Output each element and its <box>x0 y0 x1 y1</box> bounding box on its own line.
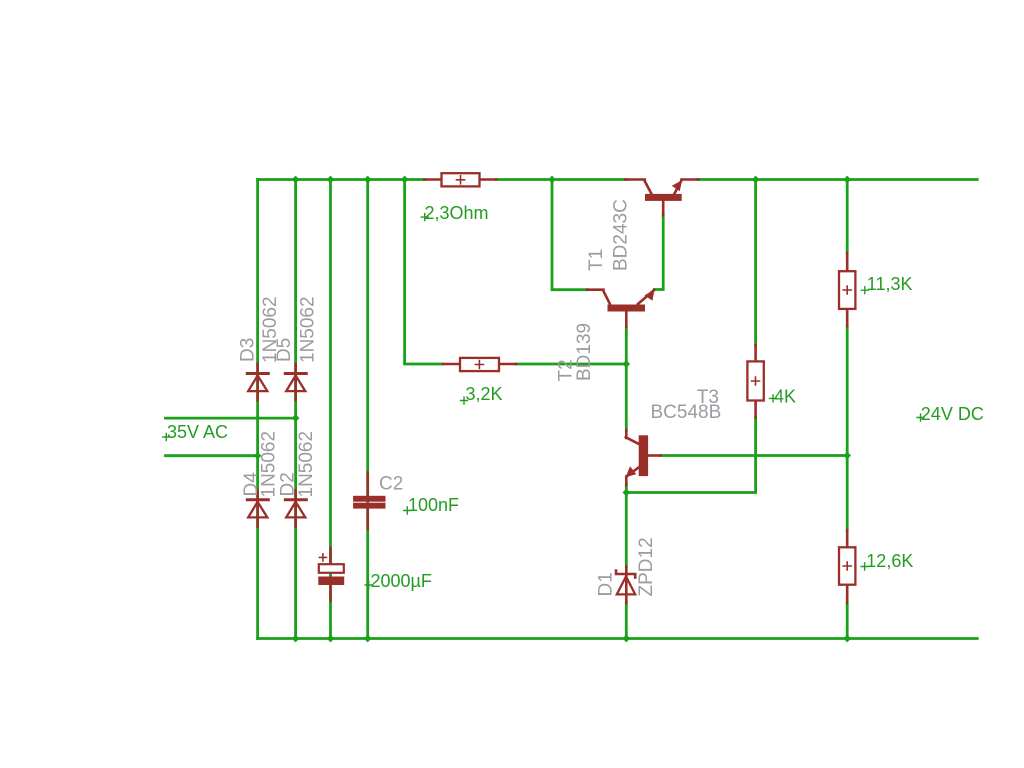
svg-text:4K: 4K <box>774 387 796 407</box>
svg-text:100nF: 100nF <box>408 495 459 515</box>
svg-text:1N5062: 1N5062 <box>296 431 317 498</box>
wire column x=330 (2000uF leg) <box>329 180 332 639</box>
svg-text:ZPD12: ZPD12 <box>636 537 657 596</box>
label value 100nF with origin cross <box>404 495 459 515</box>
junction top rail x=330 <box>327 176 335 184</box>
svg-text:12,6K: 12,6K <box>866 551 913 571</box>
junction top rail x=368 <box>364 176 372 184</box>
wire node down to T3 collector <box>625 364 628 431</box>
junction bottom rail x=368 <box>364 635 372 643</box>
wire T3 emitter node to 4K column <box>626 418 755 493</box>
resistor R 2,3Ohm (horizontal, in top rail) <box>424 173 496 186</box>
wire 35V AC upper lead <box>166 417 296 420</box>
wire divider column top rail to 11,3K <box>846 180 849 254</box>
junction top rail x=552 <box>548 176 556 184</box>
svg-text:BC548B: BC548B <box>651 402 722 423</box>
wire T3 base to divider node x=847 <box>661 454 848 457</box>
svg-text:11,3K: 11,3K <box>867 274 913 294</box>
diode D4 (bridge, bottom left column) <box>247 490 268 527</box>
junction AC lower at x=258 <box>254 452 262 460</box>
svg-text:D1: D1 <box>596 572 617 596</box>
svg-text:35V AC: 35V AC <box>167 422 228 442</box>
resistor R 12,6K (vertical, divider lower) <box>839 530 855 603</box>
svg-text:D5: D5 <box>274 338 295 362</box>
svg-text:BD139: BD139 <box>574 323 595 381</box>
wire 3,2K to node at x=626 <box>516 363 626 366</box>
resistor R 4K (vertical) <box>747 345 763 418</box>
label net 24V DC with origin cross <box>917 404 984 424</box>
resistor R 11,3K (vertical, divider upper) <box>839 253 855 326</box>
zener diode D1 ZPD12 <box>616 567 635 604</box>
transistor T1 BD243C (NPN pass transistor) <box>625 180 699 216</box>
junction AC upper at x=296 <box>292 414 300 422</box>
svg-text:1N5062: 1N5062 <box>297 296 318 363</box>
svg-text:D3: D3 <box>237 338 258 362</box>
wire 4K column to top rail <box>754 180 757 346</box>
wire column x=368 (C2 leg) <box>366 180 369 639</box>
capacitor C1 2000uF (polarized) <box>318 548 344 601</box>
wire left column x=258 (D3/D4 leg) <box>256 180 259 639</box>
resistor R 3,2K (horizontal, bias feed) <box>443 358 516 371</box>
capacitor C2 100nF <box>353 473 385 529</box>
wire T2 collector feed from top rail x=552 <box>552 180 588 290</box>
wire zener D1 to bottom rail <box>625 603 628 639</box>
junction bottom rail x=626 <box>622 635 630 643</box>
diode D2 (bridge, bottom right column) <box>285 490 306 527</box>
junction bottom rail x=296 <box>292 635 300 643</box>
svg-text:BD243C: BD243C <box>610 199 631 271</box>
label value 11,3K with origin cross <box>861 274 912 294</box>
svg-text:1N5062: 1N5062 <box>258 431 279 498</box>
label value 12,6K with origin cross <box>861 551 913 571</box>
wire T3 emitter node down to zener D1 <box>625 485 628 568</box>
wire bottom rail (0V) <box>258 637 978 640</box>
wire top rail output segment (24V DC) <box>697 178 977 181</box>
wire column x=296 (D5/D2 leg) <box>294 180 297 639</box>
diode D5 (bridge, top right column) <box>285 364 306 400</box>
junction top rail x=756 <box>752 176 760 184</box>
wire top rail left segment (unregulated +) <box>258 178 425 181</box>
junction top rail x=847 <box>843 176 851 184</box>
wire 11,3K to divider node <box>846 326 849 531</box>
junction divider node x=847 y=455 <box>843 452 851 460</box>
transistor T3 BC548B (NPN error amplifier) <box>626 430 661 485</box>
label value 2,3Ohm with origin cross <box>421 203 488 223</box>
svg-text:C2: C2 <box>379 474 403 495</box>
label value 4K with origin cross <box>770 387 797 407</box>
svg-text:2000µF: 2000µF <box>371 571 432 591</box>
wire bias column x=405 to 3,2K <box>405 180 443 365</box>
wire T2 emitter to T1 base <box>654 215 663 290</box>
svg-text:3,2K: 3,2K <box>466 384 503 404</box>
wire 12,6K to bottom rail <box>846 603 849 639</box>
junction top rail x=405 <box>401 176 409 184</box>
svg-text:T1: T1 <box>586 249 607 271</box>
svg-text:2,3Ohm: 2,3Ohm <box>425 203 489 223</box>
wire T2 base down to node <box>625 327 628 364</box>
label value 3,2K with origin cross <box>461 384 503 404</box>
label value 2000uF with origin cross <box>365 571 432 591</box>
junction bottom rail x=330 <box>327 635 335 643</box>
diode D3 (bridge, top left column) <box>247 364 268 400</box>
wire top rail mid segment after 2,3Ohm resistor <box>496 178 627 181</box>
transistor T2 BD139 (NPN driver) <box>587 290 655 327</box>
junction top rail x=296 <box>292 176 300 184</box>
junction bottom rail x=847 <box>843 635 851 643</box>
junction T3 emitter node x=626 y=492 <box>622 489 630 497</box>
wire 35V AC lower lead <box>166 454 258 457</box>
junction bias node x=626 y=364 <box>622 360 630 368</box>
label net 35V AC with origin cross <box>163 422 228 442</box>
svg-text:24V DC: 24V DC <box>921 404 984 424</box>
